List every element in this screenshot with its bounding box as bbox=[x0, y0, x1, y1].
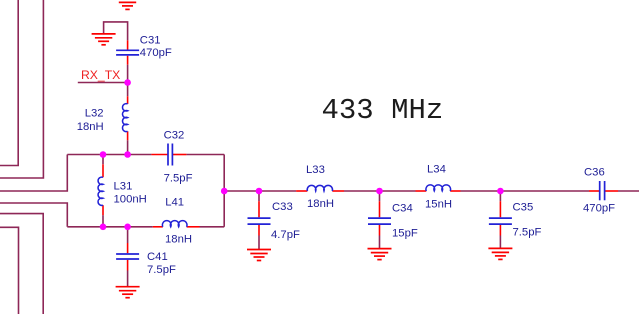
label C35 value bbox=[513, 202, 542, 239]
capacitor C41 bbox=[116, 254, 139, 259]
inductor L34 bbox=[426, 185, 451, 191]
inductor L41 bbox=[162, 221, 187, 227]
capacitor C41 pins bbox=[127, 243, 129, 271]
label L32 value bbox=[77, 108, 104, 133]
inductor L32 bbox=[123, 104, 128, 132]
label C31 value bbox=[140, 35, 172, 59]
svg-text:15nH: 15nH bbox=[425, 199, 452, 211]
inductor L31 bbox=[98, 177, 103, 205]
wire: L33 to C34 bbox=[344, 190, 380, 192]
svg-text:470pF: 470pF bbox=[583, 202, 615, 214]
node: C35 tap bbox=[497, 188, 504, 195]
svg-text:7.5pF: 7.5pF bbox=[164, 172, 193, 184]
wire: L32 to tank top bbox=[127, 140, 129, 154]
ground (below C34) bbox=[368, 249, 392, 260]
ground (below C33) bbox=[247, 250, 271, 261]
wire: left exit D (bottom-left inner bend) bbox=[0, 227, 19, 314]
label C32 value bbox=[164, 129, 193, 184]
inductor L33 bbox=[307, 185, 332, 191]
wire: tank bottom rail bbox=[67, 226, 224, 228]
capacitor C34 bbox=[368, 218, 391, 224]
svg-text:18nH: 18nH bbox=[165, 233, 192, 245]
wire: tank top rail bbox=[67, 154, 224, 156]
svg-text:L31: L31 bbox=[114, 180, 133, 192]
capacitor C34 branch wire bbox=[379, 191, 381, 201]
wire: left feed B (top-left outer bend) bbox=[0, 0, 43, 178]
svg-text:RX_TX: RX_TX bbox=[81, 68, 120, 82]
svg-text:C34: C34 bbox=[392, 203, 413, 215]
capacitor C32 pins bbox=[151, 154, 186, 156]
svg-text:C36: C36 bbox=[584, 166, 605, 178]
svg-text:L33: L33 bbox=[306, 164, 325, 176]
node: tank bottom / C41 bbox=[124, 224, 131, 231]
capacitor C36 bbox=[600, 181, 605, 200]
inductor L32 pins bbox=[127, 96, 129, 140]
svg-text:C32: C32 bbox=[164, 129, 185, 141]
wire: C35 to ground bbox=[499, 236, 501, 249]
capacitor C32 bbox=[168, 144, 172, 166]
svg-text:433 MHz: 433 MHz bbox=[322, 94, 444, 127]
svg-text:C33: C33 bbox=[272, 201, 293, 213]
capacitor C33 pins bbox=[258, 201, 260, 235]
ground (top, partially cut off) bbox=[116, 0, 140, 9]
capacitor C33 branch wire bbox=[258, 191, 260, 201]
label L33 value bbox=[306, 164, 334, 210]
svg-text:7.5pF: 7.5pF bbox=[513, 227, 542, 239]
capacitor C31 bbox=[116, 50, 139, 55]
node: tank top / L31 bbox=[100, 151, 107, 158]
wire: left feed A (top-left inner bend) bbox=[0, 0, 18, 166]
label C41 value bbox=[147, 251, 176, 276]
svg-text:C41: C41 bbox=[147, 251, 168, 263]
wire: C33 to L33 bbox=[259, 190, 296, 192]
label C33 value bbox=[271, 201, 300, 241]
label L41 value bbox=[165, 197, 192, 246]
svg-text:7.5pF: 7.5pF bbox=[147, 264, 176, 276]
capacitor C31 pins bbox=[127, 40, 129, 64]
wire: L34 to C35 bbox=[461, 190, 501, 192]
wire: C34 to L34 bbox=[380, 190, 416, 192]
label L34 value bbox=[425, 163, 452, 210]
wire: output bbox=[618, 190, 639, 192]
wire: elbow from left ground to C31 top bbox=[104, 22, 128, 41]
ground (below C41) bbox=[116, 287, 140, 298]
wire: C41 to ground bbox=[127, 271, 129, 287]
capacitor C33 bbox=[248, 218, 271, 224]
capacitor C36 pins bbox=[589, 190, 618, 192]
svg-text:L32: L32 bbox=[85, 108, 104, 120]
ground (below C35) bbox=[488, 248, 512, 259]
wire: L31 leads on rails bbox=[102, 155, 104, 227]
node: tank top / L32 bbox=[124, 151, 131, 158]
capacitor C35 bbox=[489, 218, 512, 224]
node: C34 tap bbox=[376, 188, 383, 195]
node: tank bottom / L31 bbox=[100, 224, 107, 231]
node: C33 tap bbox=[256, 188, 263, 195]
label C34 value bbox=[392, 203, 418, 240]
inductor L41 pins bbox=[153, 226, 200, 228]
svg-text:L41: L41 bbox=[165, 197, 184, 209]
wire: tank right edge bbox=[223, 155, 225, 227]
wire: RX_TX stub bbox=[78, 82, 128, 84]
wire: feed to tank bottom-left corner bbox=[0, 203, 67, 227]
wire: C41 top lead bbox=[127, 227, 129, 243]
wire: main line input to C33 bbox=[224, 190, 259, 192]
inductor L31 pins bbox=[102, 164, 104, 215]
svg-text:15pF: 15pF bbox=[392, 228, 418, 240]
svg-text:4.7pF: 4.7pF bbox=[271, 229, 300, 241]
node: filter input bbox=[221, 188, 228, 195]
ground (left of C31) bbox=[92, 34, 116, 45]
svg-text:470pF: 470pF bbox=[140, 47, 172, 59]
inductor L33 pins bbox=[296, 190, 344, 192]
wire: feed to tank top-left corner bbox=[0, 155, 67, 192]
wire: C35 to C36 bbox=[500, 190, 589, 192]
capacitor C35 pins bbox=[499, 201, 501, 235]
node: RX_TX junction bbox=[124, 79, 131, 86]
capacitor C35 branch wire bbox=[499, 191, 501, 201]
wire: C33 to ground bbox=[258, 236, 260, 250]
svg-text:18nH: 18nH bbox=[307, 198, 334, 210]
svg-text:L34: L34 bbox=[427, 163, 446, 175]
label L31 value bbox=[114, 180, 147, 205]
svg-text:C35: C35 bbox=[513, 202, 534, 214]
svg-text:C31: C31 bbox=[140, 35, 161, 47]
wire: C34 to ground bbox=[379, 236, 381, 249]
inductor L34 pins bbox=[416, 190, 461, 192]
capacitor C34 pins bbox=[379, 201, 381, 235]
label C36 value bbox=[583, 166, 615, 214]
wire: RX_TX node to L32 bbox=[127, 83, 129, 97]
svg-text:18nH: 18nH bbox=[77, 121, 104, 133]
svg-text:100nH: 100nH bbox=[114, 193, 147, 205]
wire: left exit C (bottom-left outer bend) bbox=[0, 214, 43, 314]
wire: C31 to RX_TX node bbox=[127, 65, 129, 83]
